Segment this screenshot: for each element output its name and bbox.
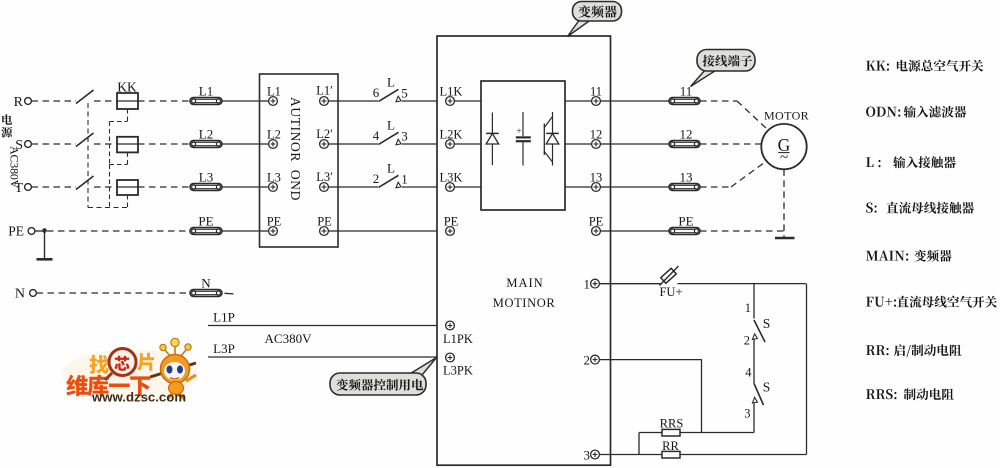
callout 接线端子 (terminal block)	[691, 50, 756, 87]
fuse 11	[669, 84, 700, 105]
svg-text:2: 2	[373, 171, 380, 186]
svg-text:L1′: L1′	[316, 84, 333, 98]
svg-text:AUTINOR OND: AUTINOR OND	[288, 97, 303, 201]
wire inverter PE to fuse PE	[611, 230, 670, 232]
legend RRS	[866, 388, 954, 400]
ground PE	[37, 231, 53, 259]
terminal L1PK	[443, 321, 473, 346]
terminal 13	[565, 171, 611, 192]
wire N to fuse N (dashed)	[37, 292, 191, 294]
label AC380V vertical	[8, 146, 22, 189]
svg-text:13: 13	[680, 170, 693, 185]
node R input terminal	[14, 95, 32, 110]
terminal L2' of filter	[316, 127, 338, 148]
terminal 1 (DC+)	[584, 277, 600, 292]
svg-text:3: 3	[744, 407, 750, 421]
svg-text:L2′: L2′	[316, 127, 333, 141]
wire KK to fuse L1 (dashed)	[138, 100, 190, 102]
legend MAIN	[866, 250, 952, 262]
filter ODN box (AUTINOR OND)	[260, 74, 339, 247]
breaker KK coil box 1	[94, 93, 138, 109]
callout 变频器 (inverter)	[568, 2, 622, 37]
transistor Q1 (IGBT inverter)	[544, 112, 559, 166]
terminal L3 of filter	[260, 171, 281, 192]
wire S branch from DC+ bus	[753, 284, 755, 319]
terminal PE of inverter (left)	[444, 215, 459, 236]
legend RR	[866, 344, 961, 357]
contactor S contact 4-3	[744, 366, 770, 421]
wire fuse L3 to filter ODN	[222, 186, 260, 188]
label supply 电源	[1, 114, 12, 137]
terminal L3PK	[443, 353, 473, 377]
svg-text:L1PK: L1PK	[443, 332, 473, 346]
breaker KK interlock linkage (dashed)	[110, 109, 128, 208]
svg-text:S: S	[763, 316, 771, 331]
contactor L contact 4-3	[338, 118, 437, 145]
diode D1 (rectifier)	[486, 113, 499, 166]
terminal 2 (DC-)	[584, 353, 600, 368]
fuse L1	[190, 84, 222, 105]
terminal 3 (brake)	[584, 448, 600, 463]
svg-text:1: 1	[745, 301, 751, 315]
svg-text:5: 5	[401, 86, 408, 101]
wire S to RRS line	[753, 404, 755, 433]
terminal PE of filter (right)	[317, 215, 338, 236]
svg-text:FU+: FU+	[659, 285, 682, 299]
terminal L1 of filter	[260, 85, 281, 106]
svg-text:2: 2	[584, 353, 591, 368]
motor M	[761, 109, 809, 170]
wire L3P control line	[208, 341, 437, 357]
svg-text:L: L	[387, 75, 395, 90]
fuse 13	[669, 170, 700, 191]
fuse L2	[190, 127, 222, 148]
svg-text:MAIN: MAIN	[506, 276, 543, 290]
node S input terminal	[15, 138, 31, 153]
wire filter PE to inverter PE	[338, 230, 437, 232]
svg-text:L1P: L1P	[213, 310, 235, 325]
svg-text:L: L	[387, 118, 395, 133]
fuse PE	[190, 214, 222, 235]
wire RRS line	[639, 432, 754, 434]
wire S to breaker KK (dashed)	[32, 143, 77, 145]
terminal 11	[565, 85, 611, 106]
wire fuse 13 to motor (dashed)	[700, 161, 767, 187]
wire PE to fuse PE (dashed)	[35, 230, 190, 232]
svg-text:L3′: L3′	[316, 170, 333, 184]
resistor RR	[662, 439, 680, 458]
svg-text:4: 4	[373, 128, 380, 143]
fuse 12	[669, 127, 700, 148]
svg-text:MOTINOR: MOTINOR	[493, 296, 556, 310]
label MAIN	[506, 276, 543, 290]
svg-text:www.dzsc.com: www.dzsc.com	[91, 390, 186, 405]
breaker KK pole 1 blade	[76, 90, 94, 104]
fuse N	[190, 276, 222, 297]
terminal PE of inverter (right)	[589, 215, 611, 236]
terminal L2K	[440, 128, 481, 149]
breaker KK linkage (dashed)	[88, 103, 128, 208]
ground motor	[775, 237, 795, 240]
inverter MAIN box	[437, 36, 611, 465]
wire KK to fuse L3 (dashed)	[138, 186, 190, 188]
wire inverter to fuse 12	[611, 143, 670, 145]
terminal L1' of filter	[316, 84, 338, 106]
breaker KK coil box 3	[94, 180, 138, 195]
wire inverter to fuse 13	[611, 186, 670, 188]
svg-text:1: 1	[584, 277, 591, 292]
svg-text:L3P: L3P	[213, 341, 235, 356]
terminal L2 of filter	[260, 128, 281, 149]
svg-text:1: 1	[401, 172, 408, 187]
svg-text:N: N	[201, 276, 211, 291]
watermark logo www.dzsc.com	[62, 338, 198, 404]
wire KK to fuse L2 (dashed)	[138, 143, 190, 145]
legend FU+	[866, 296, 997, 308]
wire terminal3 RR line	[599, 454, 806, 456]
fuse PE right	[669, 214, 700, 235]
svg-text:2: 2	[744, 334, 750, 348]
label KK	[117, 80, 137, 95]
wire right bus down	[806, 284, 808, 455]
wire R to breaker KK (dashed)	[32, 100, 77, 102]
svg-text:R: R	[14, 95, 24, 110]
wire N stub	[225, 292, 234, 295]
wire T to breaker KK (dashed)	[32, 186, 77, 188]
wire terminal2 right	[599, 359, 702, 361]
svg-text:PE: PE	[678, 214, 693, 229]
svg-text:4: 4	[745, 366, 752, 380]
wire fuse L2 to filter ODN	[222, 143, 260, 145]
breaker KK coil box 2	[94, 137, 138, 153]
callout 变频器控制用电 (inverter control power)	[330, 358, 437, 396]
resistor RRS	[660, 417, 684, 437]
terminal L3K	[440, 171, 481, 192]
terminal L1K	[440, 85, 481, 106]
terminal L3' of filter	[316, 170, 338, 191]
svg-text:3: 3	[401, 129, 408, 144]
svg-text:N: N	[15, 287, 25, 302]
label AUTINOR OND vertical	[288, 97, 303, 201]
junction PE	[42, 228, 47, 233]
svg-text:+: +	[516, 126, 521, 136]
label AC380V	[265, 331, 313, 346]
wire FU+ to right bus	[678, 283, 807, 285]
svg-text:12: 12	[680, 127, 693, 142]
fuse L3	[190, 170, 222, 191]
wire S1 to S2	[753, 340, 755, 384]
node PE terminal	[8, 224, 35, 239]
label MOTINOR	[493, 296, 556, 310]
svg-text:MOTOR: MOTOR	[764, 109, 809, 123]
terminal PE of filter (left)	[260, 215, 282, 236]
wire terminal1 to FU+	[599, 283, 661, 285]
legend S	[866, 202, 974, 214]
svg-text:L3: L3	[199, 170, 213, 185]
svg-text:L2: L2	[199, 127, 213, 142]
svg-text:6: 6	[373, 85, 380, 100]
wire terminal2 down to RRS line	[701, 360, 703, 433]
node N terminal	[15, 287, 37, 302]
wire L1P control line	[208, 310, 437, 326]
svg-text:~: ~	[780, 150, 788, 166]
node T input terminal	[14, 181, 31, 196]
legend L	[866, 156, 956, 168]
contactor S contact 1-2	[744, 301, 771, 348]
svg-text:PE: PE	[8, 224, 24, 239]
contactor L contact 6-5	[338, 75, 437, 102]
capacitor C1 (DC bus)	[516, 112, 531, 166]
svg-text:L: L	[387, 161, 395, 176]
svg-text:S: S	[763, 380, 771, 395]
wire fuse PE to filter ODN	[222, 230, 260, 232]
svg-text:PE: PE	[198, 214, 213, 229]
legend ODN	[866, 106, 966, 118]
wire fuse 11 to motor (dashed)	[700, 101, 767, 129]
svg-text:L1: L1	[199, 84, 213, 99]
terminal 12	[565, 128, 611, 149]
breaker KK pole 2 blade	[76, 133, 94, 147]
svg-text:L3PK: L3PK	[443, 364, 473, 378]
wire RRS to RR line	[638, 433, 640, 455]
svg-text:RRS: RRS	[660, 417, 684, 431]
wire motor to ground (dashed)	[783, 169, 785, 237]
wire inverter to fuse 11	[611, 100, 670, 102]
wire fuse 12 to motor (dashed)	[700, 143, 761, 145]
svg-text:3: 3	[584, 448, 591, 463]
rectifier-inverter inner box	[481, 81, 565, 210]
wire fuse PE to motor ground (dashed)	[700, 230, 784, 232]
svg-text:AC380V: AC380V	[8, 146, 22, 189]
contactor L contact 2-1	[338, 161, 437, 188]
legend KK	[866, 60, 983, 72]
wire fuse L1 to filter ODN	[222, 100, 260, 102]
breaker FU+ (DC bus)	[599, 266, 682, 299]
svg-text:AC380V: AC380V	[265, 331, 313, 346]
breaker KK pole 3 blade	[76, 176, 94, 190]
